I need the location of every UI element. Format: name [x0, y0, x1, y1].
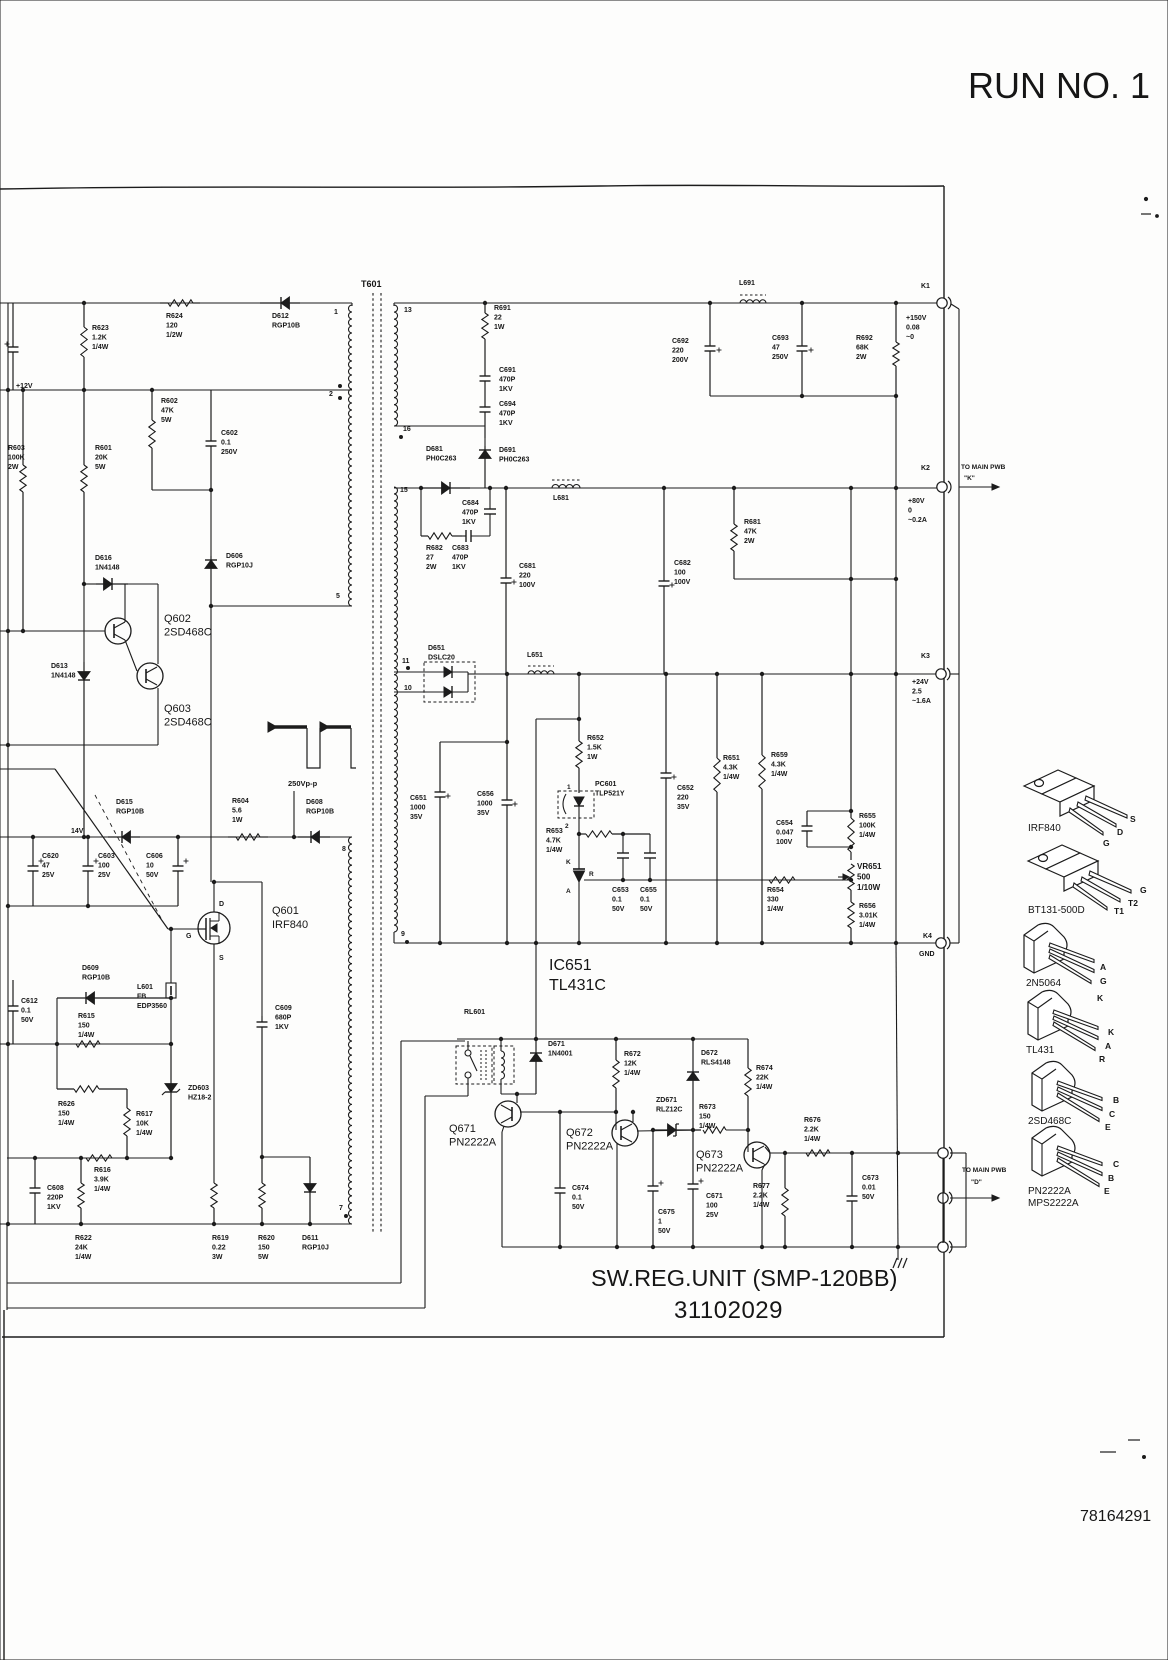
wire reference wire — [584, 879, 851, 881]
wire C654 top wire — [807, 810, 851, 812]
junction bot col898 — [896, 1245, 899, 1248]
resistor R672 — [613, 1039, 619, 1112]
junction K2 rail C681 — [504, 486, 507, 489]
resistor R622 — [78, 1158, 84, 1224]
svg-text:TO MAIN PWB: TO MAIN PWB — [961, 464, 1006, 471]
resistor R659 — [759, 674, 765, 943]
polarity dot pin7 — [345, 1215, 348, 1218]
resistor R620 — [259, 1157, 265, 1224]
connector K1 — [937, 297, 951, 309]
wire Q671 emitter drop — [501, 1132, 503, 1247]
transformer core dashed — [373, 293, 381, 1233]
capacitor C682 — [659, 488, 675, 674]
inductor T601 primary winding 8-7 — [348, 837, 352, 1224]
junction L601 bottom — [169, 1042, 172, 1045]
junction bot R677 — [783, 1245, 786, 1248]
wire winding13 link — [393, 303, 395, 306]
svg-text:K3: K3 — [921, 653, 930, 660]
svg-text:R6594.3K1/4W: R6594.3K1/4W — [771, 752, 788, 778]
wire caps bottom rail — [8, 905, 178, 907]
wire TO MAIN PWB D arrow — [950, 1195, 999, 1201]
wire K4 arc stub — [950, 938, 959, 943]
resistor R676 — [806, 1150, 830, 1156]
wire Q603 collector — [157, 584, 159, 664]
wire R601 column to D613 — [83, 584, 85, 662]
wire sub rail top — [457, 1038, 748, 1040]
diode D672 — [687, 1039, 699, 1130]
junction zd wire R674 — [746, 1128, 749, 1131]
wire left rail lower extension — [6, 1224, 8, 1310]
svg-text:1: 1 — [334, 309, 338, 316]
capacitor C683 — [462, 530, 490, 542]
svg-text:7: 7 — [339, 1205, 343, 1212]
connector K3 — [936, 668, 950, 680]
resistor R623 — [81, 303, 87, 390]
junction rail14 at C620 — [31, 835, 34, 838]
diode D613 — [78, 662, 90, 837]
polarity dot pin11 — [407, 667, 410, 670]
svg-text:A: A — [566, 888, 571, 895]
junction D606 node — [209, 604, 212, 607]
junction K4 rail R659 — [760, 941, 763, 944]
junction bot C671 — [691, 1245, 694, 1248]
junction K2 rail C684 left — [419, 486, 422, 489]
wire 250Vpp pointer — [293, 791, 295, 837]
svg-text:L691: L691 — [739, 280, 755, 287]
transistor Q601 IRF840 — [198, 912, 230, 944]
wire tap to down column — [536, 718, 579, 720]
capacitor C612 — [8, 980, 19, 1044]
svg-text:D: D — [1117, 827, 1123, 837]
capacitor C673 — [847, 1153, 858, 1247]
resistor R677 — [782, 1153, 788, 1247]
mark top right c — [1156, 215, 1159, 218]
junction rail1158 C608 — [33, 1156, 36, 1159]
junction R623 top — [82, 301, 85, 304]
wire primary top rail +150V side — [0, 302, 352, 304]
junction R623 bottom — [82, 388, 85, 391]
junction bot C674 — [558, 1245, 561, 1248]
svg-text:10: 10 — [404, 685, 412, 692]
wire base rail upper — [84, 583, 96, 585]
junction coil top rail — [499, 1037, 502, 1040]
wire Q673 collector wire — [765, 1147, 770, 1153]
wire TL431 K lead — [578, 834, 580, 869]
capacitor C656 — [502, 674, 518, 943]
svg-text:R655100K1/4W: R655100K1/4W — [859, 813, 876, 839]
svg-text:S: S — [1130, 814, 1136, 824]
wire conn bracket — [950, 1153, 966, 1247]
wire relay feed top — [401, 1040, 465, 1042]
junction R691 top — [483, 301, 486, 304]
wire pin16 wire — [394, 425, 485, 427]
wire relay contact top — [467, 1041, 469, 1050]
wire sub bottom rail — [502, 1246, 938, 1248]
wire gate dashed diagonal — [95, 795, 163, 922]
wire relay coil bottom — [500, 1079, 502, 1094]
diode D651b — [424, 686, 468, 698]
capacitor C693 — [797, 303, 814, 396]
junction K3 rail R651 — [715, 672, 718, 675]
svg-text:2: 2 — [329, 391, 333, 398]
capacitor C675 — [648, 1130, 664, 1247]
svg-text:78164291: 78164291 — [1080, 1508, 1151, 1525]
svg-text:IRF840: IRF840 — [1028, 823, 1061, 834]
junction R692 bottom — [894, 394, 897, 397]
junction R603 bottom — [21, 629, 24, 632]
junction D672 top — [691, 1037, 694, 1040]
wire lower base return — [0, 744, 158, 746]
diode D612 — [260, 297, 300, 309]
junction R672 top — [614, 1037, 617, 1040]
junction C654 bot col — [849, 845, 852, 848]
junction C654 top col — [849, 809, 852, 812]
svg-text:TL431: TL431 — [1026, 1045, 1055, 1056]
svg-text:G: G — [186, 933, 192, 940]
svg-text:"K": "K" — [964, 475, 975, 482]
diode D615 — [108, 831, 140, 843]
connector K4 — [936, 937, 950, 949]
wire col896 K3-K4 — [895, 674, 897, 943]
border bottom line — [2, 1336, 944, 1338]
diode D609 — [57, 992, 171, 1004]
connector P2 — [938, 1192, 952, 1204]
diode ZD603 — [162, 1044, 180, 1158]
diode D606 — [205, 556, 217, 606]
svg-text:9: 9 — [401, 931, 405, 938]
wire C651 stub — [440, 741, 507, 743]
wire col896 K2-K3 — [895, 488, 897, 674]
package 2SD468C — [1032, 1061, 1102, 1121]
junction K4 rail C651 — [438, 941, 441, 944]
junction left rail at +12V — [6, 388, 9, 391]
svg-text:K: K — [566, 859, 571, 866]
junction rail1158 ZD603 — [169, 1156, 172, 1159]
package 2N5064 — [1024, 923, 1094, 983]
wire TO MAIN PWB K arrow — [959, 484, 999, 490]
inductor T601 secondary winding 13-16 — [394, 305, 398, 426]
svg-text:A: A — [1105, 1041, 1111, 1051]
potentiometer VR651 — [838, 864, 854, 890]
wire secondary top rail — [394, 302, 938, 304]
resistor R652 — [576, 719, 582, 793]
capacitor C691 — [480, 366, 491, 398]
inductor T601 secondary winding 15-11-10-9 — [394, 487, 397, 932]
wire R692 column to K2 — [895, 396, 897, 488]
svg-text:K: K — [1108, 1027, 1115, 1037]
svg-text:G: G — [1100, 976, 1107, 986]
wire C609 column — [261, 882, 263, 1016]
svg-text:MPS2222A: MPS2222A — [1028, 1198, 1079, 1209]
wire drain wire — [213, 882, 215, 912]
wire D609 left leg — [56, 998, 58, 1044]
polarity dot pin2a — [339, 385, 342, 388]
svg-text:2N5064: 2N5064 — [1026, 978, 1061, 989]
junction rail14 at C606 — [176, 835, 179, 838]
svg-text:B: B — [1108, 1173, 1114, 1183]
border right edge — [943, 186, 945, 1337]
svg-text:T2: T2 — [1128, 898, 1138, 908]
wire winding top link — [351, 303, 353, 306]
resistor R616 — [86, 1155, 112, 1161]
junction R653 node — [577, 832, 580, 835]
junction R615 node — [55, 1042, 58, 1045]
resistor R653 — [579, 831, 650, 837]
wire relay coil top — [500, 1039, 502, 1051]
junction K4 rail R651 — [715, 941, 718, 944]
junction D671 top — [534, 1037, 537, 1040]
ferrite bead L601 — [166, 983, 176, 998]
mark bottom right c — [1143, 1456, 1146, 1459]
junction Q671 coll node — [515, 1092, 518, 1095]
svg-text:K4: K4 — [923, 933, 932, 940]
junction rail14 at C603 — [86, 835, 89, 838]
junction caps bottom C603 — [86, 904, 89, 907]
svg-text:2: 2 — [565, 823, 569, 830]
wire 14V rail — [0, 836, 352, 838]
svg-text:13: 13 — [404, 307, 412, 314]
wire C653 top leg — [622, 834, 624, 853]
capacitor C654 — [802, 811, 813, 847]
wire gate feed stub — [0, 768, 55, 770]
wire C654 bottom wire — [807, 846, 851, 848]
junction bot C675 — [651, 1245, 654, 1248]
capacitor C684 — [484, 488, 496, 536]
svg-text:16: 16 — [403, 426, 411, 433]
wire Q672 base lead — [615, 1112, 617, 1130]
wire R602 C602 bottom — [152, 489, 211, 491]
relay RL601 coil box — [494, 1046, 514, 1084]
junction D609 right node — [169, 996, 172, 999]
inductor L681 — [552, 480, 580, 488]
junction zd wire D672 — [691, 1128, 694, 1131]
junction output col898 — [896, 1151, 899, 1154]
wire gate node to L601 — [170, 929, 172, 983]
border top line — [0, 185, 944, 189]
diode D651a — [424, 666, 468, 678]
capacitor C608 — [30, 1158, 41, 1224]
resistor R655 — [848, 674, 854, 860]
wire drain column upper — [210, 606, 212, 882]
polarity dot pin16 — [400, 436, 403, 439]
junction K3 rail col896 — [894, 672, 897, 675]
wire Q673 emitter — [762, 1164, 765, 1170]
package PN2222A — [1032, 1126, 1102, 1186]
transistor Q672 PN2222A — [612, 1120, 638, 1146]
wire K3 rail — [475, 673, 938, 675]
junction output C673 — [850, 1151, 853, 1154]
wire Q602 collector — [124, 584, 126, 622]
wire pin9 link — [393, 932, 395, 943]
mark bottom right b — [1128, 1439, 1140, 1441]
ground symbol — [893, 1258, 907, 1268]
mark top right b — [1141, 213, 1151, 215]
svg-text:R6563.01K1/4W: R6563.01K1/4W — [859, 903, 878, 929]
junction rail at R692 — [894, 301, 897, 304]
svg-text:R6163.9K1/4W: R6163.9K1/4W — [94, 1167, 111, 1193]
junction K3 rail C656 — [505, 672, 508, 675]
junction R653 wire C653 — [621, 832, 624, 835]
wire gate wire — [168, 928, 198, 930]
junction bottom rail R619 — [212, 1222, 215, 1225]
wire K2 rail — [394, 487, 938, 489]
wire primary left rail — [7, 303, 9, 1224]
transistor Q673 PN2222A — [744, 1142, 770, 1168]
inductor L691 — [740, 295, 766, 303]
junction R602 top — [150, 388, 153, 391]
junction bottom rail D611 — [308, 1222, 311, 1225]
resistor R692 — [893, 303, 899, 396]
wire lower control rail — [7, 1157, 171, 1159]
wire relay return — [425, 1095, 468, 1097]
capacitor C602 — [206, 390, 217, 490]
junction caps bottom left — [6, 904, 9, 907]
capacitor C655 — [644, 853, 656, 880]
wire zd wire cont — [726, 1129, 748, 1131]
junction R652 tap — [577, 717, 580, 720]
resistor R617 — [124, 1089, 130, 1158]
svg-text:S: S — [219, 955, 224, 962]
wire Q672 emitter wire — [637, 1130, 701, 1131]
wire Q672 emitter drop — [616, 1143, 618, 1247]
svg-text:14V: 14V — [71, 828, 84, 835]
wire pin11 wire — [394, 671, 424, 673]
svg-text:C: C — [1113, 1159, 1119, 1169]
wire col536 K4 to subrail — [535, 943, 537, 1039]
wire pin10 wire — [394, 691, 424, 693]
capacitor C653 — [617, 853, 629, 880]
border left edge bottom — [3, 1310, 5, 1660]
svg-text:C: C — [1109, 1109, 1115, 1119]
junction K3 rail R659 — [760, 672, 763, 675]
svg-text:K: K — [1097, 993, 1104, 1003]
polarity dot pin2b — [339, 397, 342, 400]
wire K output bus vertical — [958, 309, 960, 938]
junction K3 rail col851 — [849, 672, 852, 675]
transistor Q603 2SD468C — [137, 663, 163, 689]
wire R652 top — [578, 674, 580, 719]
svg-text:L651: L651 — [527, 652, 543, 659]
capacitor C606 — [173, 837, 189, 906]
capacitor C694 — [480, 398, 491, 438]
wire relay contact bottom — [467, 1078, 469, 1096]
capacitor C603 — [83, 837, 99, 906]
wire line to page left B — [7, 1307, 425, 1309]
svg-text:GND: GND — [919, 951, 935, 958]
junction K4 rail C652 — [664, 941, 667, 944]
resistor R602 — [149, 390, 155, 490]
waveform pulse glyph — [268, 722, 356, 768]
resistor R674 — [745, 1039, 751, 1130]
svg-text:R: R — [589, 871, 594, 878]
junction ref C655 — [648, 878, 651, 881]
junction rail1158 R617 — [125, 1156, 128, 1159]
wire C694 to D691 — [484, 438, 486, 446]
junction bottom rail R620 — [260, 1222, 263, 1225]
capacitor C651 — [435, 742, 451, 943]
wire ground stub — [897, 1247, 899, 1260]
junction rail at C693 — [800, 301, 803, 304]
relay RL601 contacts — [465, 1050, 486, 1080]
resistor R624 — [160, 300, 200, 306]
connector P3 — [938, 1241, 952, 1253]
junction rail at C692 — [708, 301, 711, 304]
mark bottom right a — [1100, 1451, 1116, 1453]
wire snubber node wire — [262, 1156, 310, 1158]
junction D613 bottom rail — [82, 835, 85, 838]
wire K1 link elbow — [951, 304, 959, 309]
junction K4 rail col536 — [534, 941, 537, 944]
wire Q671 emitter — [502, 1126, 504, 1132]
connector K2 — [937, 481, 951, 493]
resistor R682 — [421, 533, 462, 539]
diode D608 — [298, 831, 330, 843]
capacitor C609 — [257, 1016, 268, 1157]
junction K4 rail R656 — [849, 941, 852, 944]
wire K4 ground rail — [394, 942, 938, 944]
svg-text:E: E — [1105, 1122, 1111, 1132]
junction K4 rail C656 — [505, 941, 508, 944]
junction K2 rail C682 — [662, 486, 665, 489]
capacitor C620 — [28, 837, 44, 906]
mark top right a — [1144, 197, 1147, 200]
svg-text:PN2222A: PN2222A — [1028, 1186, 1071, 1197]
wire Q672 collector — [632, 1112, 634, 1122]
svg-text:R6534.7K1/4W: R6534.7K1/4W — [546, 828, 563, 854]
resistor R656 — [848, 890, 854, 943]
package IRF840 — [1024, 770, 1127, 835]
svg-text:TL431C: TL431C — [549, 977, 606, 994]
junction Q602 base left — [6, 629, 9, 632]
svg-text:A: A — [1100, 962, 1106, 972]
junction K2 rail R681 — [732, 486, 735, 489]
svg-text:1: 1 — [567, 784, 571, 791]
junction K3 rail C652 — [664, 672, 667, 675]
junction base wire C674 — [558, 1110, 561, 1113]
svg-text:L681: L681 — [553, 495, 569, 502]
diode ZD671 — [655, 1124, 701, 1136]
capacitor C652 — [661, 674, 677, 943]
wire relay feed drop — [400, 1041, 402, 1283]
resistor R603 — [20, 390, 26, 631]
diode D671 — [530, 1039, 542, 1094]
wire gate feed diagonal — [55, 769, 168, 929]
svg-text:11: 11 — [402, 658, 410, 665]
resistor R615 — [76, 1041, 100, 1047]
junction bot Q672e — [615, 1245, 618, 1248]
package TL431 — [1028, 990, 1098, 1050]
diode D681 — [421, 482, 470, 494]
svg-text:D: D — [219, 901, 224, 908]
svg-text:250Vp-p: 250Vp-p — [288, 779, 318, 788]
shunt regulator IC651 TL431 symbol — [573, 869, 585, 943]
transistor Q671 PN2222A — [495, 1101, 521, 1127]
junction D616 left node — [82, 582, 85, 585]
dual diode D651 box — [424, 662, 475, 702]
svg-text:IC651: IC651 — [549, 957, 592, 974]
wire primary +12V rail — [0, 389, 352, 391]
polarity dot pin9 — [406, 941, 409, 944]
wire C69x bottom wire — [710, 395, 896, 397]
capacitor C681 — [501, 488, 517, 674]
svg-text:T1: T1 — [1114, 906, 1124, 916]
resistor R681 — [731, 488, 737, 579]
package BT131-500D — [1028, 845, 1131, 910]
wire L601 to R615 rail — [170, 998, 172, 1044]
svg-text:C6540.047100V: C6540.047100V — [776, 820, 794, 846]
wire C602 node to D606 — [210, 490, 212, 556]
junction K2 rail C684 right — [488, 486, 491, 489]
